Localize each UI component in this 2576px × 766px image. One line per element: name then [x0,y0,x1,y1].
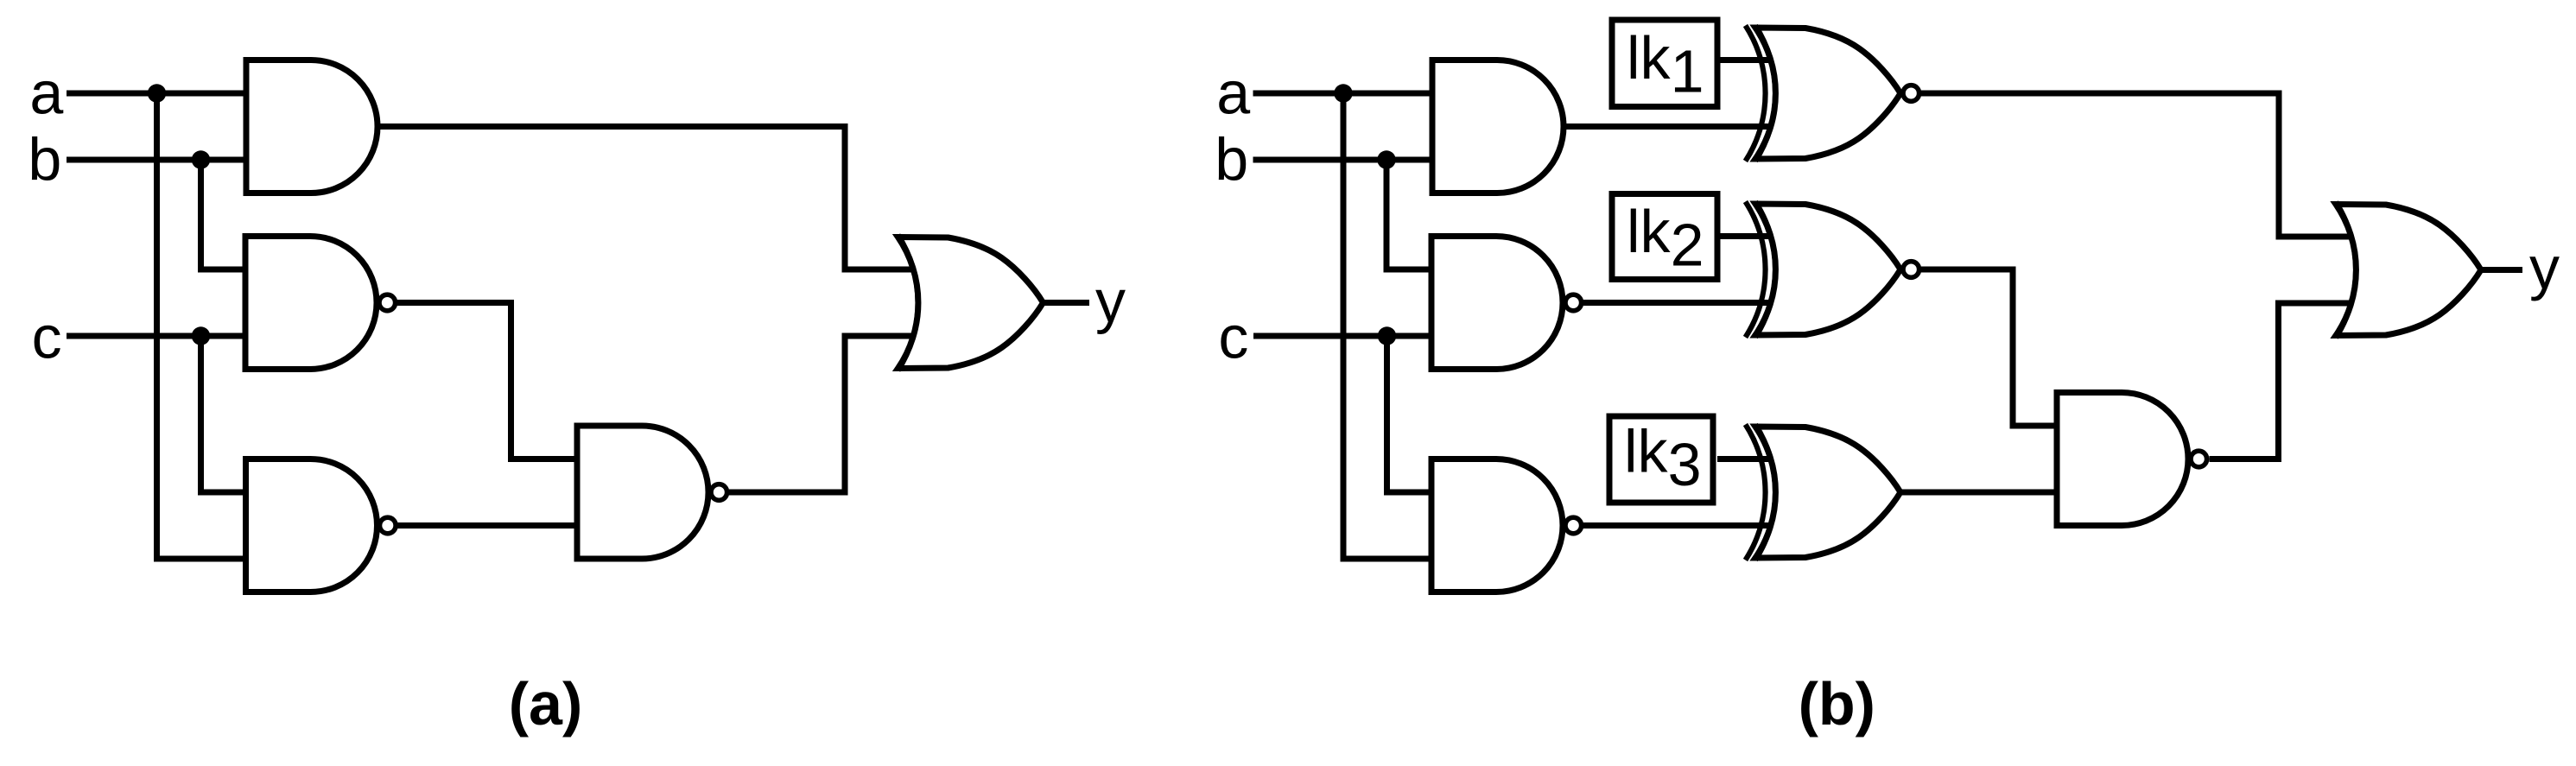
svg-text:a: a [1216,60,1250,127]
wire b branch down to NAND2 upper input (b) [1386,160,1431,269]
caption (a) [509,670,583,738]
NAND gate G4 (a) [577,426,727,559]
wire NAND2 output to XNOR2 lower input (b) [1583,300,1801,306]
wire b branch down to NAND2 upper input (a) [201,160,246,269]
label y (b) [2529,234,2560,301]
OR gate G5 (a) [898,235,1044,370]
NAND gate U3 (b) [1431,459,1582,592]
wire OR output y (a) [1044,300,1090,306]
XNOR gate X1 (b) [1746,26,1919,161]
label c (b) [1218,304,1248,371]
wire input c (a) [67,333,245,339]
label b (b) [1215,126,1248,193]
AND gate U1 (b) [1432,60,1564,193]
XOR gate X3 (b) [1746,425,1901,560]
wire c branch down to NAND3 upper input (a) [201,336,246,492]
wire lk3 box to XOR3 upper input (b) [1717,456,1801,462]
svg-text:y: y [2529,234,2560,301]
wire a branch down to NAND3 lower input (b) [1343,93,1431,559]
junction on a (a) [148,84,166,102]
wire XNOR2 output to NAND4 upper input (b) [1921,269,2057,426]
svg-text:(b): (b) [1799,670,1875,738]
wire AND1 output to XNOR1 lower input (b) [1564,123,1801,130]
XNOR gate X2 (b) [1746,202,1919,338]
svg-text:y: y [1095,268,1126,335]
junction on b (b) [1377,150,1395,168]
wire OR output y (b) [2481,267,2522,273]
leakage box lk2 (b) [1612,194,1717,280]
wire input a (a) [67,91,246,97]
svg-text:c: c [1218,304,1248,371]
svg-text:(a): (a) [509,670,583,738]
svg-text:a: a [29,60,63,127]
label a (b) [1216,60,1250,127]
OR gate U5 (b) [2336,202,2481,338]
NAND gate U4 (b) [2057,393,2207,526]
label a (a) [29,60,63,127]
junction on a (b) [1334,84,1352,102]
wire input c (b) [1253,333,1431,339]
label y (a) [1095,268,1126,335]
NAND gate U2 (b) [1431,237,1582,370]
wire NAND3 output to XOR3 lower input (b) [1583,522,1801,529]
label b (a) [28,126,61,193]
wire NAND3 output to NAND4 lower input (a) [397,522,577,529]
wire NAND4 output to OR lower input (b) [2210,303,2376,459]
label c (a) [32,304,62,371]
wire NAND4 output to OR lower input (a) [729,336,929,492]
wire lk2 box to XNOR2 upper input (b) [1717,233,1801,239]
wire NAND2 output to NAND4 upper input (a) [397,303,577,459]
AND gate G1 (a) [246,60,378,193]
wire XNOR1 output to OR upper input (b) [1921,93,2376,237]
wire AND1 output to OR upper input (a) [378,127,929,270]
wire input b (a) [67,157,246,163]
wire XOR3 output to NAND4 lower input (b) [1900,490,2057,496]
wire c branch down to NAND3 upper input (b) [1387,336,1432,492]
NAND gate G3 (a) [246,459,397,592]
leakage box lk3 (b) [1609,416,1713,503]
svg-text:b: b [28,126,61,193]
wire a branch down to NAND3 lower input (a) [157,93,246,559]
junction on b (a) [192,150,210,168]
svg-text:c: c [32,304,62,371]
wire input b (b) [1253,157,1431,163]
svg-text:b: b [1215,126,1248,193]
caption (b) [1799,670,1875,738]
junction on c (b) [1378,326,1396,345]
wire input a (b) [1253,91,1431,97]
leakage box lk1 (b) [1612,20,1717,107]
junction on c (a) [192,326,210,345]
NAND gate G2 (a) [245,237,396,370]
wire lk1 box to XNOR1 upper input (b) [1717,57,1801,63]
